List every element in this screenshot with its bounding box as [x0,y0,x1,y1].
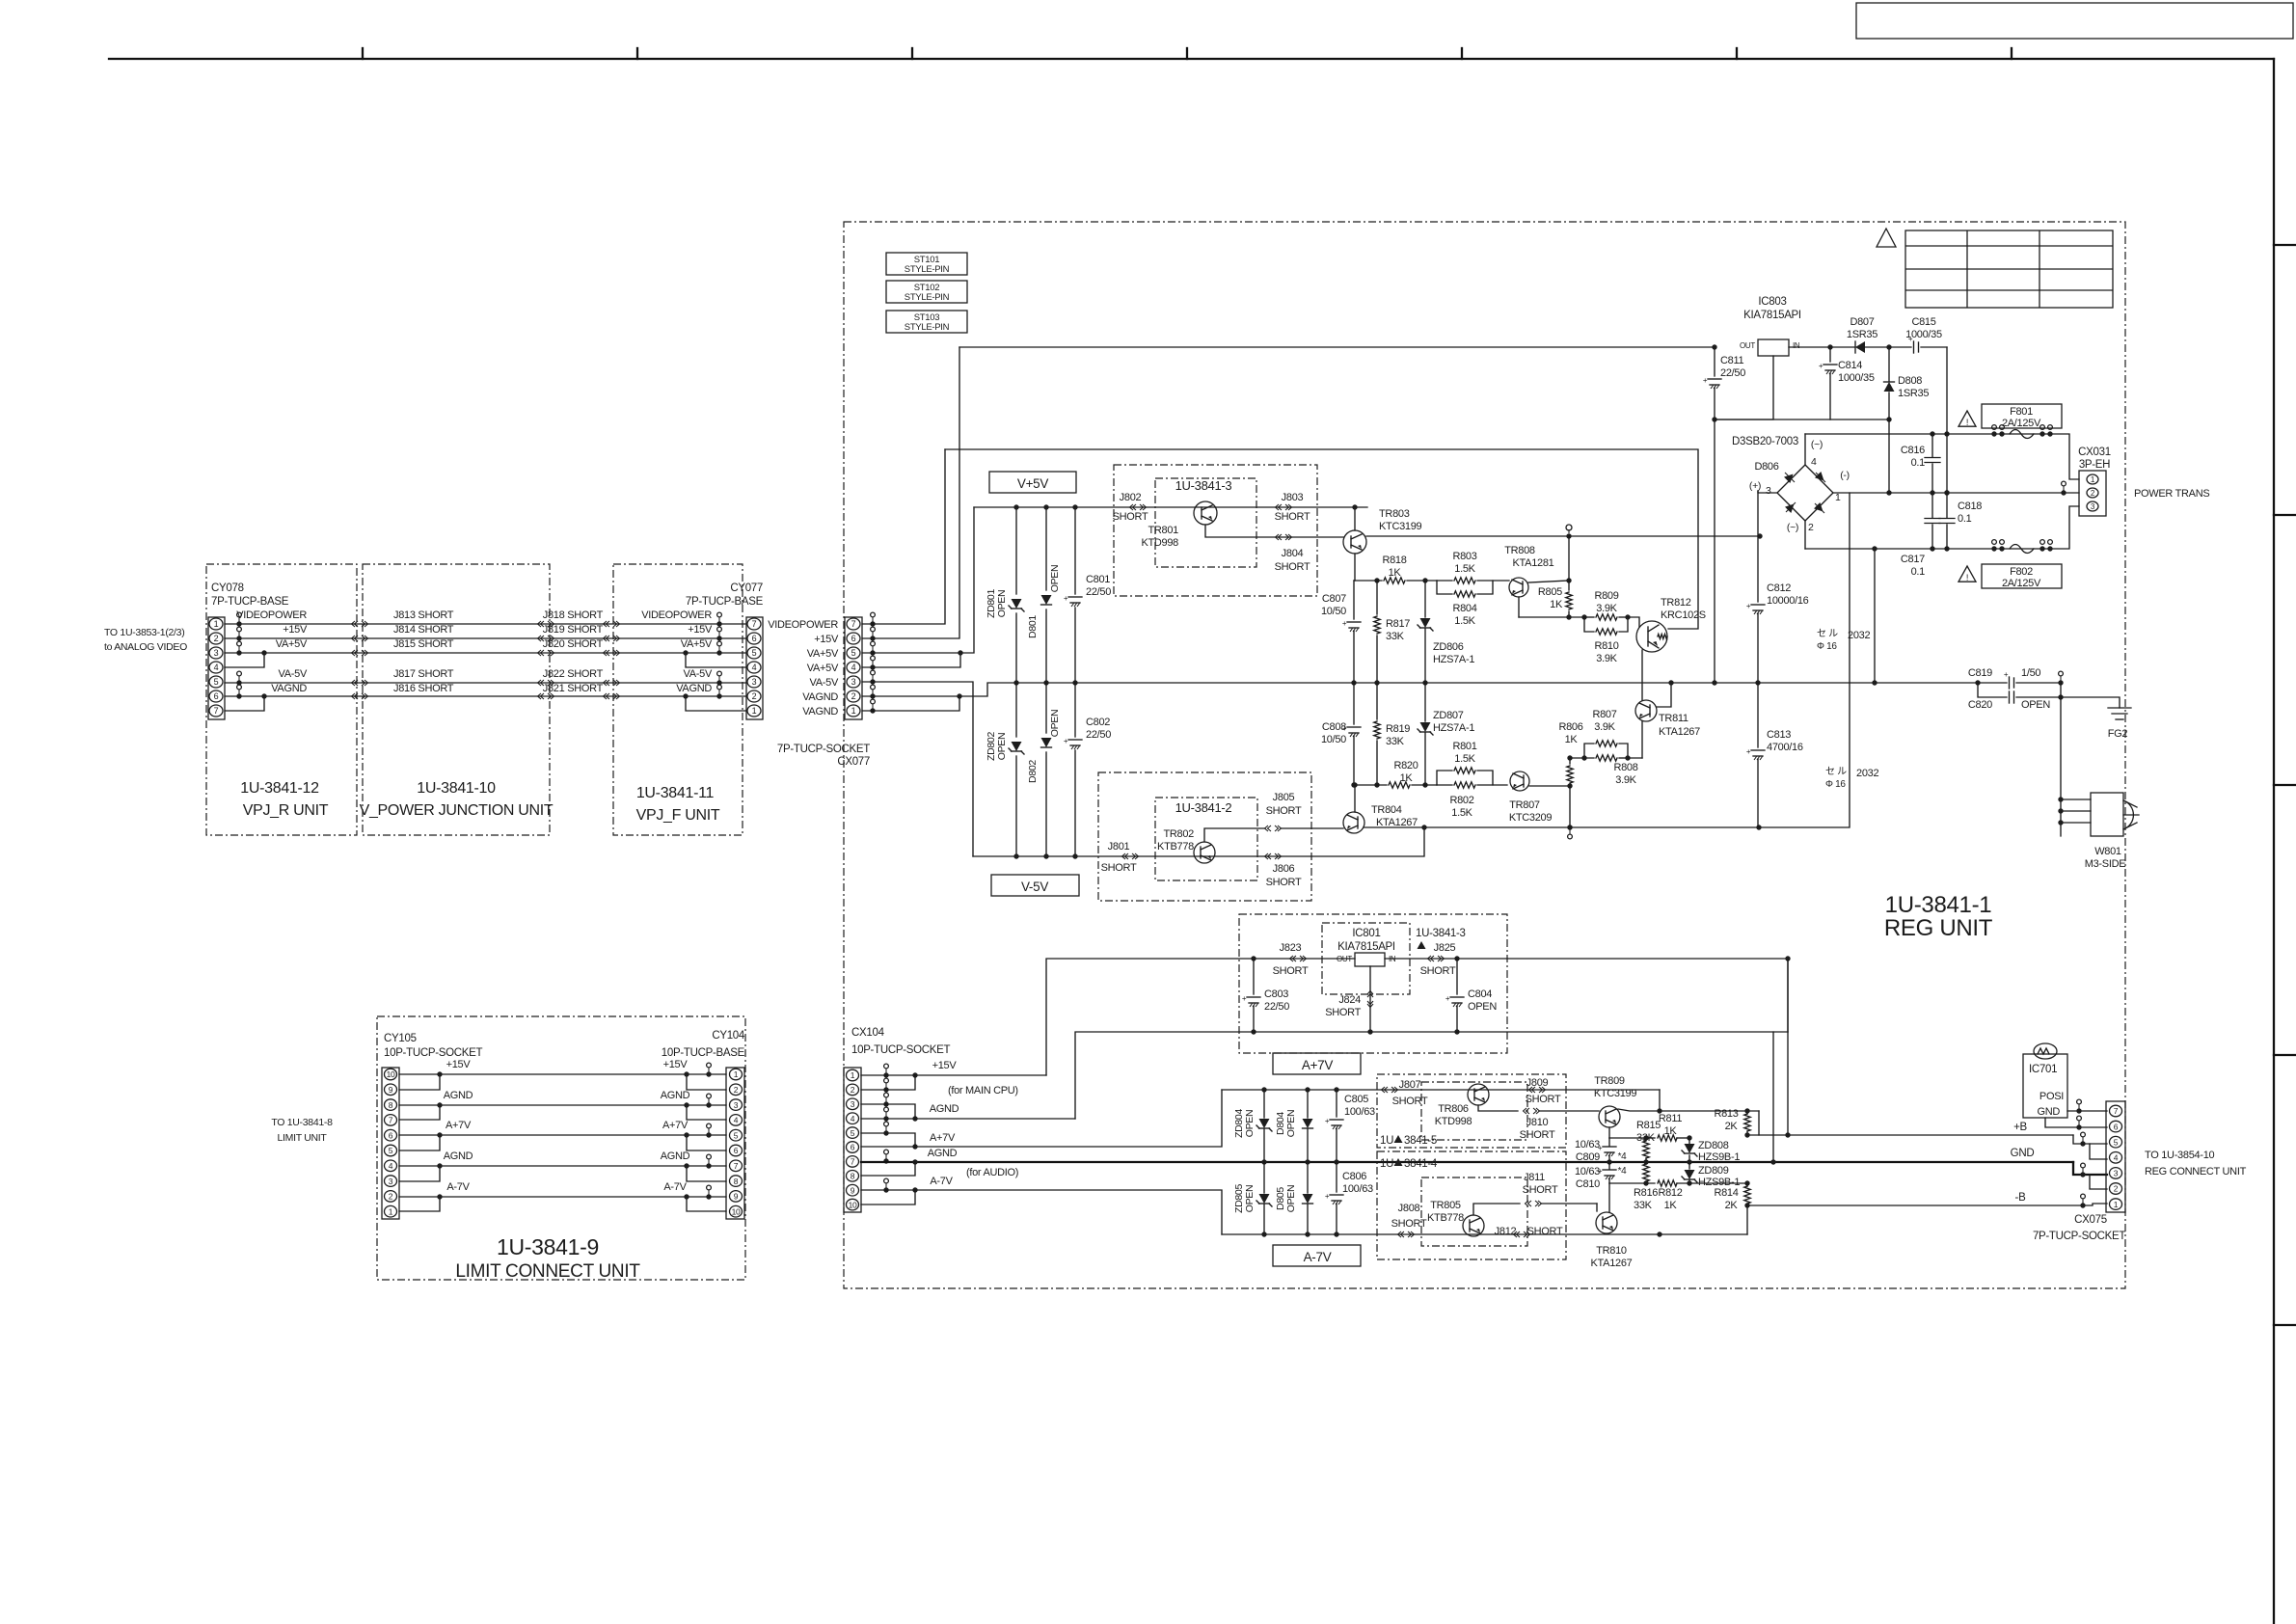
svg-text:R811: R811 [1659,1113,1682,1124]
svg-text:R817: R817 [1386,618,1410,630]
svg-text:SHORT: SHORT [1391,1218,1427,1230]
svg-text:(for AUDIO): (for AUDIO) [966,1167,1018,1178]
transistor TR802 KTB778 [1194,842,1215,863]
svg-text:C812: C812 [1767,582,1791,594]
regulator IC801 body [1355,953,1385,966]
svg-text:J816 SHORT: J816 SHORT [393,683,454,694]
stub CX104 pin8 [861,1162,915,1176]
svg-text:1U-3841-1: 1U-3841-1 [1885,892,1992,918]
IC701 motor symbol [2034,1043,2057,1059]
svg-text:2K: 2K [1725,1200,1739,1211]
wire CX104 pin6 A+7V [861,1090,1222,1147]
svg-text:3.9K: 3.9K [1594,721,1615,733]
resistor R820 1K [1389,782,1410,788]
svg-text:TO 1U-3854-10: TO 1U-3854-10 [2145,1150,2215,1161]
svg-text:33K: 33K [1636,1132,1656,1144]
svg-text:FG2: FG2 [2108,728,2128,740]
test pins CY104 side [706,1071,711,1076]
border: right ruler line [2273,59,2275,1624]
wire W801 pins [2061,798,2091,800]
svg-text:セ ル: セ ル [1817,628,1838,639]
resistor R818 1K [1384,578,1405,583]
transistor TR810 KTA1267 [1596,1212,1617,1233]
svg-text:22/50: 22/50 [1086,586,1111,598]
svg-text:J818 SHORT: J818 SHORT [543,609,604,621]
svg-text:TR801: TR801 [1148,525,1178,536]
svg-text:TR810: TR810 [1596,1245,1627,1257]
transistor TR805 KTB778 [1463,1215,1484,1236]
zener ZD805 (OPEN) column [1263,1162,1265,1193]
row y640 R809 R810 to TR812 [1519,616,1584,618]
svg-text:to ANALOG VIDEO: to ANALOG VIDEO [104,641,187,653]
svg-text:33K: 33K [1634,1200,1653,1211]
capacitor C807 10/50 column [1353,581,1355,619]
svg-text:7: 7 [752,619,757,629]
svg-text:R807: R807 [1592,709,1616,720]
svg-text:R806: R806 [1558,721,1582,733]
svg-text:5: 5 [851,648,856,658]
svg-text:KTB778: KTB778 [1157,841,1194,853]
svg-text:C814: C814 [1838,360,1862,371]
svg-text:33K: 33K [1386,736,1405,747]
jumper J825 SHORT [1428,956,1435,961]
rail V-5V y888 [973,827,1424,856]
svg-text:1U: 1U [1380,1135,1393,1147]
svg-text:1SR35: 1SR35 [1898,388,1929,399]
svg-text:+: + [1325,1117,1330,1125]
jumper J824 SHORT vertical [1369,966,1371,1032]
svg-text:J815 SHORT: J815 SHORT [393,638,454,650]
label ST101 STYLE-PIN box [886,253,967,275]
svg-text:VA-5V: VA-5V [279,668,308,680]
svg-text:R803: R803 [1452,551,1476,562]
svg-text:4: 4 [389,1161,393,1171]
wire +B into CX075 pin5 [2073,1135,2107,1144]
svg-text:R813: R813 [1714,1108,1738,1120]
svg-text:C819: C819 [1968,667,1992,679]
wire VAGND CY078-CY077 [225,695,746,697]
svg-text:(~): (~) [1811,439,1823,450]
svg-text:KTA1267: KTA1267 [1591,1258,1633,1269]
stub CY104 pin6 [687,1135,726,1150]
svg-text:A+7V: A+7V [662,1120,689,1131]
diode D801 (OPEN) column [1045,507,1047,590]
svg-text:SHORT: SHORT [1420,965,1456,977]
rail VAGND y707/708 long [1016,682,1978,684]
stub CY105 pin9 [399,1074,440,1090]
unit box 1U-3841-5 dashed [1377,1074,1566,1148]
svg-text:+: + [1746,747,1751,756]
svg-text:J810: J810 [1526,1117,1549,1128]
resistor R816 33K vertical [1643,1164,1649,1181]
wire VA+5V CY078-CY077 [225,652,746,654]
capacitor C811 22/50 column [1714,347,1715,376]
wire CX104 pin1 +15V [861,1074,1046,1076]
capacitor C808 10/50 column [1353,683,1355,724]
svg-text:8: 8 [389,1100,393,1110]
resistor R801 1.5K parallel upper [1437,771,1452,785]
bridge rectifier D806 diamond [1777,465,1833,521]
wire TR809 collector row y1152 [1618,1109,1759,1111]
svg-text:KIA7815API: KIA7815API [1743,310,1801,321]
stub CY104 pin10 [687,1197,726,1211]
svg-text:STYLE-PIN: STYLE-PIN [905,292,950,303]
stub CX075 pin2 [2090,1175,2107,1189]
wire to TR812 base [1628,617,1639,627]
svg-text:4: 4 [1811,456,1817,468]
svg-text:*4: *4 [1618,1166,1628,1177]
wire TR803 base-emitter rail y556 to bridge plus [1366,535,1760,537]
svg-text:10: 10 [849,1200,857,1209]
svg-text:+15V: +15V [932,1060,958,1071]
regulator IC803 body [1758,339,1789,356]
wire bridge bottom corner to AC rail y569 [1804,521,1806,549]
svg-text:7: 7 [2114,1106,2119,1116]
svg-text:OPEN: OPEN [1244,1110,1256,1138]
svg-text:KTA1267: KTA1267 [1376,817,1418,828]
wire TR811 emitter to R807 row [1641,721,1643,758]
transistor TR807 KTC3209 [1510,771,1529,791]
svg-text:VAGND: VAGND [676,683,712,694]
svg-text:10/63: 10/63 [1575,1166,1600,1177]
svg-text:7P-TUCP-BASE: 7P-TUCP-BASE [686,596,764,608]
capacitor C813 4700/16 column [1757,683,1759,747]
resistor R814 2K vertical [1744,1186,1750,1204]
svg-text:5: 5 [734,1130,739,1140]
svg-text:R814: R814 [1714,1187,1738,1199]
capacitor C815 1000/35 series [1889,346,1911,348]
svg-text:2032: 2032 [1848,630,1870,641]
svg-text:POWER TRANS: POWER TRANS [2134,488,2209,500]
svg-text:10: 10 [387,1069,395,1079]
revision table grid [1905,230,2113,308]
svg-text:2: 2 [734,1085,739,1095]
svg-text:4: 4 [214,663,219,672]
svg-text:C810: C810 [1576,1178,1600,1190]
svg-text:TR808: TR808 [1504,545,1535,556]
unit box 1U-3841-3 (dashed outer) [1114,465,1317,596]
svg-text:CY105: CY105 [384,1033,417,1044]
diode D807 1SR35 [1830,346,1855,348]
svg-text:3: 3 [1766,485,1771,497]
unit box 1U-3841-9 LIMIT CONNECT UNIT (dashed) [377,1016,745,1280]
svg-text:J806: J806 [1273,863,1295,875]
svg-text:A-7V: A-7V [930,1176,953,1187]
svg-text:SHORT: SHORT [1325,1007,1361,1018]
svg-text:R802: R802 [1449,795,1473,806]
wire +15V CY105.10-CY104.1 [399,1073,726,1075]
capacitor C814 1000/35 column [1829,347,1831,362]
svg-text:VA+5V: VA+5V [276,638,308,650]
wire IC701 GND to CX075 pin6 [2045,1118,2107,1127]
svg-text:AGND: AGND [661,1090,690,1101]
svg-text:0.1: 0.1 [1911,566,1926,578]
svg-text:TR805: TR805 [1430,1200,1461,1211]
svg-text:ZD806: ZD806 [1433,641,1464,653]
svg-text:REG UNIT: REG UNIT [1884,915,1993,941]
svg-text:CX075: CX075 [2074,1214,2107,1226]
svg-text:+: + [1064,594,1068,603]
svg-text:!: ! [1966,573,1968,582]
svg-text:0.1: 0.1 [1958,513,1972,525]
svg-text:1.5K: 1.5K [1454,615,1475,627]
svg-text:7: 7 [214,706,219,716]
svg-text:J814 SHORT: J814 SHORT [393,624,454,636]
svg-text:C808: C808 [1322,721,1346,733]
wire +B corner down [1758,1111,1760,1135]
svg-text:TO 1U-3841-8: TO 1U-3841-8 [271,1117,333,1128]
svg-text:C807: C807 [1322,593,1346,605]
unit box 1U-3841-3 inner dashed [1155,478,1256,567]
svg-text:1K: 1K [1400,772,1414,784]
svg-text:0.1: 0.1 [1911,457,1926,469]
svg-text:IN: IN [1793,341,1800,350]
svg-text:1U-3841-9: 1U-3841-9 [497,1234,599,1259]
svg-text:J801: J801 [1108,841,1130,853]
svg-text:SHORT: SHORT [1392,1096,1428,1107]
svg-text:R820: R820 [1393,760,1418,771]
svg-text:7: 7 [389,1116,393,1125]
svg-text:7: 7 [734,1161,739,1171]
svg-text:LIMIT CONNECT UNIT: LIMIT CONNECT UNIT [455,1261,640,1282]
connector CY105 pins 10-1 [385,1069,397,1080]
wire CX077 pin5 VA+5V up to V+5V rail [862,507,974,653]
wire bridge top corner to AC rail y450 [1804,434,1806,465]
capacitor C801 22/50 column [1074,507,1076,594]
svg-text:C801: C801 [1086,574,1110,585]
svg-text:+15V: +15V [814,634,839,645]
svg-text:+: + [1445,994,1450,1003]
wire A+7V rail down to TR809 collector [1659,1090,1661,1111]
svg-text:7: 7 [851,619,856,629]
svg-text:10000/16: 10000/16 [1767,595,1809,607]
svg-text:AGND: AGND [928,1148,958,1159]
svg-text:KRC102S: KRC102S [1661,609,1706,621]
stub CY078 pin4 VA+5V [225,653,264,667]
svg-text:(for MAIN CPU): (for MAIN CPU) [948,1085,1018,1096]
svg-text:J825: J825 [1434,942,1456,954]
svg-text:3.9K: 3.9K [1596,603,1617,614]
svg-text:VIDEOPOWER: VIDEOPOWER [768,619,838,631]
svg-text:7P-TUCP-SOCKET: 7P-TUCP-SOCKET [777,744,870,755]
svg-text:ZD807: ZD807 [1433,710,1464,721]
svg-text:1.5K: 1.5K [1451,807,1472,819]
svg-text:OPEN: OPEN [996,590,1008,618]
svg-text:KIA7815API: KIA7815API [1337,941,1395,953]
svg-text:D802: D802 [1027,760,1039,783]
svg-text:3: 3 [214,648,219,658]
svg-text:SHORT: SHORT [1113,511,1148,523]
svg-text:SHORT: SHORT [1273,965,1309,977]
svg-text:ZD809: ZD809 [1698,1165,1729,1177]
unit box 1U-3841-11 VPJ_F UNIT (dashed) [613,564,743,835]
svg-text:5: 5 [2114,1137,2119,1147]
wire CX077 pin6 +15V up to rail [862,347,959,638]
unit box 1U-3841-2 (dashed outer) [1098,772,1311,901]
svg-text:+15V: +15V [446,1059,472,1070]
test pins CX077 [870,621,875,626]
transistor TR809 KTC3199 [1599,1106,1620,1127]
wire VA-5V CY078-CY077 [225,682,746,684]
connector CY077 body [746,617,763,719]
svg-text:J812: J812 [1495,1226,1517,1237]
resistor R802 1.5K parallel lower [1437,784,1452,786]
wire TR804 collector up to R820 row [1354,785,1356,812]
connector CX077 body [845,617,862,719]
svg-text:C820: C820 [1968,699,1992,711]
svg-text:TR804: TR804 [1371,804,1402,816]
stub CX075 pin4 [2090,1144,2107,1159]
capacitor C810 10/63 column [1608,1162,1610,1169]
rail AGND y1070 [1075,1032,1788,1119]
svg-text:J802: J802 [1120,492,1142,503]
svg-text:VA-5V: VA-5V [684,668,713,680]
svg-text:AGND: AGND [444,1150,473,1162]
title block (empty) [1856,3,2293,39]
stub CY105 pin7 [399,1105,440,1120]
jumper J807 SHORT [1382,1087,1389,1093]
svg-text:OPEN: OPEN [996,733,1008,761]
svg-text:D3SB20-7003: D3SB20-7003 [1732,436,1798,447]
svg-text:1: 1 [1835,492,1841,503]
capacitor C820 OPEN series [1978,683,2007,697]
jumper J805 SHORT [1265,826,1272,831]
svg-text:J824: J824 [1338,994,1361,1006]
svg-text:KTC3199: KTC3199 [1379,521,1422,532]
svg-text:TR812: TR812 [1661,597,1691,609]
wire TR812 emitter down to TR811 [1641,650,1643,700]
jumper J802 SHORT [1130,504,1137,510]
svg-text:9: 9 [734,1192,739,1202]
svg-text:KTB778: KTB778 [1427,1212,1464,1224]
wire TR803 collector to V+5V rail [1354,507,1356,530]
svg-text:+: + [1746,602,1751,610]
wire AGND CY105.4-CY104.7 [399,1165,726,1167]
wire CX077 pin2 VAGND to ground rail [862,683,1016,696]
svg-text:ZD808: ZD808 [1698,1140,1729,1151]
svg-text:+: + [1703,376,1708,385]
svg-text:SHORT: SHORT [1266,877,1302,888]
svg-text:6: 6 [851,634,856,643]
resistor R805 1K vertical [1568,536,1570,590]
svg-text:SHORT: SHORT [1266,805,1302,817]
svg-text:2032: 2032 [1856,768,1878,779]
stub CY077 pin1 VAGND [686,696,746,711]
svg-text:1U-3841-2: 1U-3841-2 [1175,800,1232,815]
svg-text:2A/125V: 2A/125V [2002,418,2041,429]
svg-text:8: 8 [734,1177,739,1186]
svg-text:1K: 1K [1389,567,1402,579]
stub CX077 pin1 VAGND [862,696,959,711]
svg-text:A-7V: A-7V [1304,1250,1332,1264]
jumper J809 SHORT [1529,1087,1536,1093]
wire CX104 pin7 AGND thick rail [861,1161,2073,1163]
resistor R813 2K vertical [1744,1114,1750,1131]
row y602 R818 R803 R804 to TR808 [1354,580,1382,582]
resistor R804 1.5K parallel pair lower [1437,581,1452,594]
svg-text:1: 1 [851,1070,855,1080]
svg-text:1: 1 [734,1069,739,1079]
svg-text:C811: C811 [1720,355,1743,366]
svg-text:22/50: 22/50 [1086,729,1111,741]
svg-text:KTD998: KTD998 [1435,1116,1472,1127]
svg-text:1SR35: 1SR35 [1847,329,1877,340]
svg-text:C816: C816 [1901,445,1925,456]
zener ZD801 (OPEN) column [1015,507,1017,594]
svg-text:100/63: 100/63 [1342,1183,1373,1195]
svg-text:R809: R809 [1594,590,1618,602]
rail pin2 y511 from bridge minus corner [1833,492,2079,494]
svg-text:3: 3 [851,1099,855,1109]
transistor TR804 KTA1267 [1343,812,1364,833]
unit box 1U-3841-10 V_POWER JUNCTION UNIT (dashed) [363,564,550,835]
rail A+7V y1130 [1222,1089,1660,1091]
svg-text:1K: 1K [1664,1200,1678,1211]
svg-text:(+): (+) [1749,480,1761,492]
wire TR806 emitter to J810 row [1478,1105,1518,1111]
connector CX104 body [844,1068,861,1212]
svg-text:10/50: 10/50 [1321,606,1346,617]
resistor R819 33K column [1376,683,1378,719]
svg-text:R804: R804 [1452,603,1476,614]
svg-text:STYLE-PIN: STYLE-PIN [905,322,950,333]
svg-text:D807: D807 [1850,316,1874,328]
svg-text:D801: D801 [1027,615,1039,638]
svg-text:1: 1 [214,619,219,629]
wire TR810 emitter down to A-7V rail [1657,1232,1661,1236]
capacitor C812 10000/16 column [1757,536,1759,602]
rail A-7V y1280 [1222,1233,1747,1235]
stub CY078 pin7 VAGND [225,696,264,711]
unit box 1U-3841-4 dashed [1377,1151,1566,1259]
stub CX104 pin2 [861,1075,915,1090]
stub CY077 pin4 VA+5V [686,653,746,667]
svg-text:KTA1267: KTA1267 [1659,726,1700,738]
transistor TR808 KTA1281 [1509,578,1528,597]
connector W801 M3-SIDE [2091,793,2123,836]
svg-text:4700/16: 4700/16 [1767,742,1803,753]
stub CY105 pin1 [399,1197,440,1211]
svg-text:V+5V: V+5V [1017,476,1048,491]
svg-text:+: + [1342,619,1347,628]
svg-text:TR802: TR802 [1163,828,1194,840]
svg-text:1: 1 [389,1206,393,1216]
wire VIDEOPOWER CY078-CY077 [225,623,746,625]
svg-text:+: + [1325,1192,1330,1201]
svg-text:OUT: OUT [1740,341,1755,350]
label ST102 STYLE-PIN box [886,281,967,303]
jumper J808 SHORT [1398,1232,1405,1237]
svg-text:REG CONNECT UNIT: REG CONNECT UNIT [2145,1166,2247,1177]
wire +15V CY078-CY077 [225,637,746,639]
svg-text:1/50: 1/50 [2021,667,2040,679]
svg-text:4: 4 [2114,1153,2119,1163]
svg-text:R818: R818 [1382,555,1406,566]
svg-text:2A/125V: 2A/125V [2002,578,2041,589]
svg-text:R810: R810 [1594,640,1618,652]
wire C810 down to TR810 [1608,1183,1610,1212]
revision triangle [1877,229,1896,247]
row y786 R807 R808 from TR811 [1570,757,1594,759]
rail V+5V y526 [974,506,1367,508]
svg-text:VIDEOPOWER: VIDEOPOWER [236,609,307,621]
svg-text:10: 10 [732,1206,741,1216]
svg-text:J822 SHORT: J822 SHORT [543,668,604,680]
svg-text:GND: GND [2037,1106,2060,1118]
resistor R817 33K column [1376,581,1378,614]
rail +B y1177 [1747,1134,2073,1136]
svg-text:F801: F801 [2010,406,2033,418]
